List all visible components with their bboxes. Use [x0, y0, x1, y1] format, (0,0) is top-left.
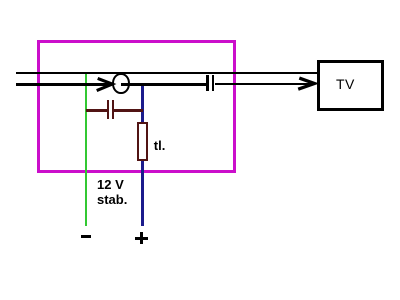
amplifier box (magenta outline)	[37, 40, 236, 173]
capacitor C1 plate right	[112, 100, 114, 119]
capacitor C1 plate left	[107, 100, 109, 119]
wire: top coax line	[16, 72, 317, 75]
wire: lower coax line, left segment	[16, 83, 112, 86]
wire: lower coax line, capacitor to TV	[215, 83, 313, 86]
capacitor C2 plate left (inline coupling capacitor)	[206, 75, 208, 92]
wire: green negative supply lead	[85, 74, 88, 226]
plus terminal horizontal bar	[135, 237, 148, 240]
label TV	[336, 76, 355, 92]
capacitor C2 plate right	[212, 75, 214, 92]
label 12 V stab.	[97, 178, 127, 208]
label tl.	[154, 139, 166, 152]
capacitor C1 lead left (green to plates)	[86, 109, 107, 111]
TV box	[317, 60, 384, 112]
resistor R1 (tl.)	[137, 122, 148, 161]
wire: blue positive supply lead	[141, 84, 144, 226]
op-amp U1 (inline amplifier circle)	[112, 73, 129, 93]
capacitor C1 lead right (plates to blue)	[114, 109, 143, 111]
plus terminal vertical bar	[140, 232, 143, 244]
minus terminal	[81, 235, 92, 238]
arrow into TV	[298, 78, 314, 89]
wire: lower coax line, circle to capacitor	[121, 83, 206, 86]
